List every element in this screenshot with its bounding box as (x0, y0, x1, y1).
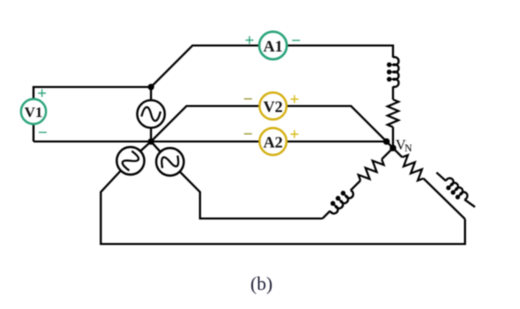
wire bottom horizontal through A2 (34, 140, 387, 142)
svg-text:−: − (291, 31, 301, 50)
svg-text:−: − (38, 123, 48, 142)
svg-text:V1: V1 (24, 105, 42, 121)
ammeter A1 (245, 31, 301, 60)
wire source S2 bottom lead, bottom loop (101, 171, 465, 244)
svg-text:V2: V2 (263, 99, 283, 116)
wire VN to left branch resistor (382, 148, 393, 159)
wire left branch resistor to coil (351, 181, 361, 191)
wire source S3 lead to junction B (151, 142, 161, 153)
wire floating coil top lead (437, 173, 447, 182)
wire floating coil bottom lead (465, 200, 476, 208)
wire left branch coil to corner (323, 211, 331, 219)
wire source S1 top stub (150, 87, 152, 101)
source S2 (AC, tilted) (117, 147, 145, 175)
inductor L2 (lower-left branch) (326, 186, 355, 215)
svg-text:+: + (290, 90, 300, 109)
resistor R1 (vertical) (388, 100, 399, 128)
wire V2 branch (151, 106, 393, 148)
wire junction A diagonal to A1 line and right corner (151, 46, 393, 88)
wire below coil to resistor (392, 87, 394, 100)
source S1 (AC) (137, 100, 165, 128)
voltmeter V2 (243, 90, 299, 120)
svg-text:+: + (37, 84, 47, 103)
wire resistor to node VN (392, 127, 394, 148)
resistor R3 (lower-right branch) (398, 153, 427, 182)
svg-text:(b): (b) (250, 274, 272, 295)
svg-text:A1: A1 (263, 39, 283, 56)
voltmeter V1 (21, 84, 47, 143)
wire source S2 lead to junction B (140, 142, 151, 152)
wire source S3 bottom lead, middle wire (180, 172, 323, 219)
wire right branch resistor to corner (423, 178, 465, 219)
wire VN to right branch resistor (393, 148, 402, 157)
svg-text:−: − (243, 90, 253, 109)
resistor R2 (lower-left branch) (357, 155, 386, 184)
ammeter A2 (243, 125, 299, 156)
wire source S1 bottom stub (150, 128, 152, 142)
inductor L3 (floating, right) (442, 177, 469, 204)
wire V1 top to junction A (34, 87, 152, 99)
node junction B (148, 138, 154, 144)
wire V1 bottom stub (32, 125, 34, 142)
svg-text:−: − (243, 125, 253, 144)
svg-text:+: + (245, 31, 255, 50)
svg-text:N: N (405, 144, 413, 155)
node VN (390, 145, 397, 152)
svg-text:+: + (290, 125, 300, 144)
svg-text:A2: A2 (263, 135, 283, 152)
source S3 (AC, tilted) (156, 148, 184, 176)
node junction A (148, 84, 154, 90)
node neutral tie (A2/V2 junction) (383, 138, 390, 145)
inductor L1 (vertical, right branch top) (387, 57, 399, 87)
